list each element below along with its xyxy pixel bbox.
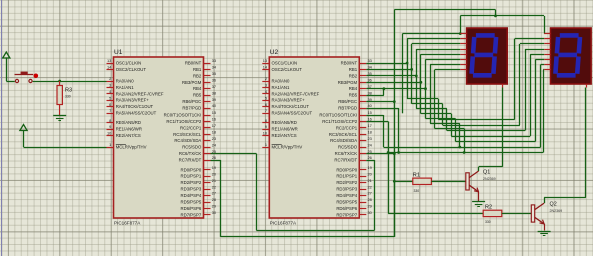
svg-text:RB5: RB5 <box>349 93 358 98</box>
svg-text:OSC1/CLKIN: OSC1/CLKIN <box>116 61 142 66</box>
svg-text:RC2/CCP1: RC2/CCP1 <box>180 125 202 130</box>
svg-text:RE1/AN6/WR: RE1/AN6/WR <box>272 127 298 132</box>
svg-text:14: 14 <box>263 65 268 70</box>
svg-text:330: 330 <box>414 189 420 193</box>
svg-text:RB6/PGC: RB6/PGC <box>182 99 201 104</box>
svg-text:RB0/INT: RB0/INT <box>341 61 358 66</box>
svg-text:RC0/T1OSO/T1CKI: RC0/T1OSO/T1CKI <box>164 113 202 118</box>
svg-text:RC3/SCK/SCL: RC3/SCK/SCL <box>329 132 358 137</box>
svg-text:RB4: RB4 <box>349 86 358 91</box>
svg-text:RC7/RX/DT: RC7/RX/DT <box>179 158 202 163</box>
svg-text:34: 34 <box>212 65 217 70</box>
svg-text:RD7/PSP7: RD7/PSP7 <box>181 212 202 217</box>
svg-text:6: 6 <box>265 102 267 107</box>
svg-text:36: 36 <box>368 78 372 83</box>
svg-text:17: 17 <box>368 123 372 128</box>
svg-text:30: 30 <box>212 210 217 215</box>
svg-text:OSC1/CLKIN: OSC1/CLKIN <box>272 61 298 66</box>
svg-text:RC5/SDO: RC5/SDO <box>338 145 358 150</box>
svg-text:RA2/AN2/VREF-/CVREF: RA2/AN2/VREF-/CVREF <box>272 91 320 96</box>
svg-text:RC6/TX/CK: RC6/TX/CK <box>335 151 358 156</box>
svg-text:29: 29 <box>212 204 216 209</box>
svg-text:9: 9 <box>109 124 111 129</box>
svg-text:RB4: RB4 <box>193 86 202 91</box>
svg-text:RD0/PSP0: RD0/PSP0 <box>336 167 357 172</box>
svg-text:RE1/AN6/WR: RE1/AN6/WR <box>116 127 142 132</box>
svg-text:MCLR/Vpp/THV: MCLR/Vpp/THV <box>116 145 147 150</box>
svg-text:RE2/AN7/CS: RE2/AN7/CS <box>116 133 141 138</box>
svg-text:RA3/AN3/VREF+: RA3/AN3/VREF+ <box>116 98 150 103</box>
svg-text:8: 8 <box>265 118 267 123</box>
svg-text:OSC2/CLKOUT: OSC2/CLKOUT <box>116 67 147 72</box>
svg-text:RD6/PSP6: RD6/PSP6 <box>336 206 357 211</box>
svg-text:27: 27 <box>368 191 372 196</box>
svg-text:35: 35 <box>212 71 216 76</box>
svg-text:RA2/AN2/VREF-/CVREF: RA2/AN2/VREF-/CVREF <box>116 91 164 96</box>
svg-text:2: 2 <box>109 76 111 81</box>
svg-text:RD3/PSP3: RD3/PSP3 <box>336 187 357 192</box>
svg-text:RD5/PSP5: RD5/PSP5 <box>181 200 202 205</box>
svg-text:RD0/PSP0: RD0/PSP0 <box>181 167 202 172</box>
svg-text:18: 18 <box>212 130 216 135</box>
svg-text:15: 15 <box>368 110 372 115</box>
svg-text:24: 24 <box>368 142 373 147</box>
svg-text:RB1: RB1 <box>349 67 358 72</box>
svg-text:Q2: Q2 <box>550 202 557 208</box>
svg-text:1: 1 <box>109 142 111 147</box>
svg-text:RC2/CCP1: RC2/CCP1 <box>336 125 358 130</box>
svg-text:16: 16 <box>212 117 216 122</box>
svg-text:RA1/AN1: RA1/AN1 <box>116 85 135 90</box>
svg-text:40: 40 <box>368 103 373 108</box>
svg-text:RA3/AN3/VREF+: RA3/AN3/VREF+ <box>272 98 306 103</box>
svg-text:RC3/SCK/SCL: RC3/SCK/SCL <box>173 132 202 137</box>
svg-text:13: 13 <box>107 58 111 63</box>
svg-text:RD3/PSP3: RD3/PSP3 <box>181 187 202 192</box>
svg-text:7: 7 <box>109 108 111 113</box>
svg-text:RC7/RX/DT: RC7/RX/DT <box>334 158 357 163</box>
svg-text:33: 33 <box>212 58 216 63</box>
svg-text:10: 10 <box>107 131 112 136</box>
svg-text:20: 20 <box>368 171 373 176</box>
svg-text:PIC16F877A: PIC16F877A <box>114 220 141 225</box>
svg-text:6: 6 <box>109 102 111 107</box>
svg-text:22: 22 <box>368 184 372 189</box>
svg-text:14: 14 <box>107 65 112 70</box>
svg-text:15: 15 <box>212 110 216 115</box>
svg-text:29: 29 <box>368 204 372 209</box>
svg-text:40: 40 <box>212 103 217 108</box>
svg-text:23: 23 <box>212 136 216 141</box>
svg-text:33: 33 <box>368 58 372 63</box>
svg-text:2N2369: 2N2369 <box>483 177 496 181</box>
svg-text:RD2/PSP2: RD2/PSP2 <box>336 180 357 185</box>
svg-text:PIC16F877A: PIC16F877A <box>270 220 297 225</box>
svg-text:13: 13 <box>263 58 267 63</box>
svg-text:RB5: RB5 <box>193 93 202 98</box>
svg-text:RC0/T1OSO/T1CKI: RC0/T1OSO/T1CKI <box>319 113 357 118</box>
svg-text:28: 28 <box>212 197 216 202</box>
svg-text:RD5/PSP5: RD5/PSP5 <box>336 200 357 205</box>
svg-text:RE2/AN7/CS: RE2/AN7/CS <box>272 133 297 138</box>
svg-text:3: 3 <box>109 83 111 88</box>
svg-text:23: 23 <box>368 136 372 141</box>
svg-text:2N2369: 2N2369 <box>550 209 563 213</box>
svg-text:19: 19 <box>368 165 372 170</box>
svg-text:RC1/T1OSI/CCP2: RC1/T1OSI/CCP2 <box>322 119 357 124</box>
svg-text:330: 330 <box>65 95 71 99</box>
svg-text:19: 19 <box>212 165 216 170</box>
svg-text:18: 18 <box>368 130 372 135</box>
svg-text:MCLR/Vpp/THV: MCLR/Vpp/THV <box>272 145 303 150</box>
svg-text:RC4/SDI/SDA: RC4/SDI/SDA <box>174 138 201 143</box>
svg-text:30: 30 <box>368 210 373 215</box>
svg-text:330: 330 <box>485 220 491 224</box>
svg-text:10: 10 <box>263 131 268 136</box>
svg-text:OSC2/CLKOUT: OSC2/CLKOUT <box>272 67 303 72</box>
svg-text:RB7/PGD: RB7/PGD <box>182 106 201 111</box>
svg-text:8: 8 <box>109 118 111 123</box>
svg-text:RD2/PSP2: RD2/PSP2 <box>181 180 202 185</box>
svg-text:24: 24 <box>212 142 217 147</box>
svg-text:RA5/AN4/SS/C2OUT: RA5/AN4/SS/C2OUT <box>116 111 157 116</box>
svg-text:5: 5 <box>265 95 267 100</box>
svg-text:21: 21 <box>368 178 372 183</box>
svg-text:RB3/PGM: RB3/PGM <box>182 80 202 85</box>
svg-text:RB2: RB2 <box>349 73 358 78</box>
svg-text:RC1/T1OSI/CCP2: RC1/T1OSI/CCP2 <box>166 119 201 124</box>
svg-text:20: 20 <box>212 171 217 176</box>
svg-text:36: 36 <box>212 78 216 83</box>
svg-text:RB0/INT: RB0/INT <box>185 61 202 66</box>
svg-text:27: 27 <box>212 191 216 196</box>
svg-text:RD4/PSP4: RD4/PSP4 <box>336 193 357 198</box>
svg-text:1: 1 <box>265 142 267 147</box>
svg-text:RC6/TX/CK: RC6/TX/CK <box>179 151 202 156</box>
svg-text:RD1/PSP1: RD1/PSP1 <box>181 174 202 179</box>
svg-text:38: 38 <box>212 90 216 95</box>
svg-text:RC4/SDI/SDA: RC4/SDI/SDA <box>330 138 357 143</box>
svg-text:RA0/AN0: RA0/AN0 <box>116 79 135 84</box>
svg-text:R3: R3 <box>65 87 72 93</box>
svg-text:RB3/PGM: RB3/PGM <box>338 80 358 85</box>
svg-text:9: 9 <box>265 124 267 129</box>
svg-text:26: 26 <box>212 155 216 160</box>
svg-text:RB7/PGD: RB7/PGD <box>338 106 357 111</box>
svg-text:RA1/AN1: RA1/AN1 <box>272 85 291 90</box>
svg-text:R2: R2 <box>485 205 492 211</box>
svg-text:3: 3 <box>265 83 267 88</box>
svg-text:28: 28 <box>368 197 372 202</box>
svg-text:RE0/AN5/RD: RE0/AN5/RD <box>116 120 141 125</box>
svg-text:22: 22 <box>212 184 216 189</box>
svg-text:Q1: Q1 <box>483 170 490 176</box>
svg-text:39: 39 <box>212 97 216 102</box>
svg-text:RB6/PGC: RB6/PGC <box>338 99 357 104</box>
svg-text:RC5/SDO: RC5/SDO <box>182 145 202 150</box>
svg-text:RD6/PSP6: RD6/PSP6 <box>181 206 202 211</box>
svg-text:38: 38 <box>368 90 372 95</box>
svg-text:RD4/PSP4: RD4/PSP4 <box>181 193 202 198</box>
svg-text:RB1: RB1 <box>193 67 202 72</box>
svg-text:RD7/PSP7: RD7/PSP7 <box>336 212 357 217</box>
svg-text:7: 7 <box>265 108 267 113</box>
svg-text:RA0/AN0: RA0/AN0 <box>272 79 291 84</box>
svg-text:2: 2 <box>265 76 267 81</box>
svg-text:17: 17 <box>212 123 216 128</box>
svg-text:37: 37 <box>212 84 216 89</box>
svg-text:5: 5 <box>109 95 111 100</box>
svg-text:RA4/T0CKI/C1OUT: RA4/T0CKI/C1OUT <box>272 104 310 109</box>
svg-text:RD1/PSP1: RD1/PSP1 <box>336 174 357 179</box>
svg-text:U2: U2 <box>270 49 279 56</box>
svg-text:U1: U1 <box>114 49 123 56</box>
svg-text:RB2: RB2 <box>193 73 202 78</box>
svg-text:26: 26 <box>368 155 372 160</box>
svg-text:RA4/T0CKI/C1OUT: RA4/T0CKI/C1OUT <box>116 104 154 109</box>
svg-text:RE0/AN5/RD: RE0/AN5/RD <box>272 120 297 125</box>
svg-text:RA5/AN4/SS/C2OUT: RA5/AN4/SS/C2OUT <box>272 111 313 116</box>
svg-text:21: 21 <box>212 178 216 183</box>
svg-text:R1: R1 <box>413 172 420 178</box>
